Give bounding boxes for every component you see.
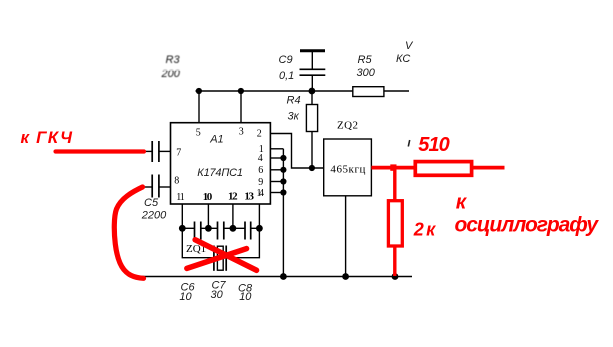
- svg-text:ZQ2: ZQ2: [337, 120, 358, 132]
- svg-text:4: 4: [258, 153, 263, 164]
- svg-text:3: 3: [239, 127, 244, 138]
- svg-text:5: 5: [196, 128, 201, 139]
- svg-text:2200: 2200: [141, 209, 167, 221]
- svg-text:A1: A1: [209, 133, 223, 145]
- svg-text:14: 14: [257, 188, 265, 199]
- svg-text:13: 13: [244, 190, 254, 202]
- svg-text:R5: R5: [358, 54, 373, 66]
- svg-text:11: 11: [176, 192, 184, 203]
- svg-text:7: 7: [176, 148, 181, 159]
- svg-text:к: к: [456, 191, 468, 214]
- svg-text:КС: КС: [396, 53, 410, 65]
- svg-text:К174ПС1: К174ПС1: [197, 167, 243, 179]
- svg-text:12: 12: [228, 190, 238, 202]
- svg-text:R4: R4: [287, 95, 301, 107]
- svg-text:6: 6: [258, 165, 263, 176]
- svg-text:510: 510: [418, 134, 450, 156]
- svg-text:300: 300: [357, 67, 376, 79]
- svg-text:10: 10: [203, 191, 213, 203]
- svg-text:0,1: 0,1: [279, 70, 294, 82]
- svg-text:2к: 2к: [413, 219, 436, 239]
- svg-text:C5: C5: [144, 197, 159, 209]
- svg-text:V: V: [405, 40, 414, 52]
- svg-text:8: 8: [174, 176, 179, 187]
- svg-text:10: 10: [179, 291, 192, 303]
- svg-text:2: 2: [257, 128, 262, 139]
- svg-text:9: 9: [258, 177, 263, 188]
- svg-text:C9: C9: [279, 54, 293, 66]
- svg-text:осциллографу: осциллографу: [455, 214, 600, 237]
- svg-text:30: 30: [211, 289, 224, 301]
- svg-text:к ГКЧ: к ГКЧ: [21, 128, 74, 147]
- svg-text:10: 10: [239, 291, 252, 303]
- svg-text:R3: R3: [166, 54, 181, 66]
- svg-text:3к: 3к: [288, 111, 300, 123]
- svg-text:465кгц: 465кгц: [330, 164, 365, 176]
